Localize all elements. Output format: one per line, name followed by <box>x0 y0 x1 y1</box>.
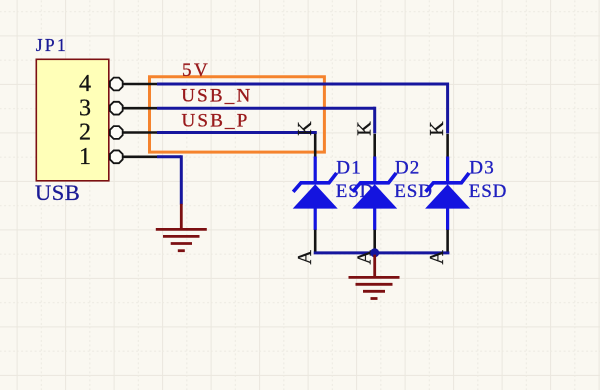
svg-text:K: K <box>294 121 316 136</box>
pin 1 stub <box>121 156 157 159</box>
svg-text:D1: D1 <box>336 158 362 179</box>
right ground bar 2 <box>356 283 393 286</box>
pin 2 stub <box>121 131 157 134</box>
D3 bottom pin (A) <box>446 230 449 252</box>
D3 top lead <box>446 157 449 183</box>
svg-text:ESD: ESD <box>469 181 508 202</box>
ground (right, under diodes) <box>349 255 400 299</box>
D2 top pin (K) <box>373 134 376 158</box>
right ground bar 4 <box>371 297 378 300</box>
svg-text:USB_P: USB_P <box>182 110 250 131</box>
D1 bottom lead <box>314 208 317 230</box>
wire pin1 to ground vertical <box>180 155 183 204</box>
D3 top pin (K) <box>446 134 449 158</box>
pin 3 stub <box>121 107 157 110</box>
D2 triangle <box>352 184 397 208</box>
diode D1 (ESD) <box>293 121 338 265</box>
D2 bottom lead <box>373 208 376 230</box>
left ground bar 3 <box>171 242 192 245</box>
left ground bar 2 <box>163 235 200 238</box>
D1 bottom pin (A) <box>314 230 317 252</box>
left ground bar 1 <box>156 228 207 231</box>
pin 2 circle <box>110 126 123 139</box>
D3 triangle <box>425 184 470 208</box>
svg-text:1: 1 <box>79 144 91 170</box>
D1 cathode bar <box>293 173 336 192</box>
pin 3 circle <box>110 102 123 115</box>
svg-text:K: K <box>353 121 375 136</box>
diode D2 (ESD) <box>352 121 397 265</box>
junction dot <box>370 248 379 257</box>
wire 5V vertical to D3 <box>446 83 449 134</box>
left ground lead <box>180 204 183 230</box>
svg-text:D2: D2 <box>395 158 421 179</box>
svg-text:D3: D3 <box>469 158 495 179</box>
wire USB_N vertical to D2 <box>373 107 376 134</box>
D3 cathode bar <box>426 173 469 192</box>
right ground bar 3 <box>363 290 385 293</box>
D1 top pin (K) <box>314 134 317 158</box>
svg-text:2: 2 <box>79 120 91 146</box>
left ground bar 4 <box>178 249 185 252</box>
svg-text:3: 3 <box>79 95 91 121</box>
D2 top lead <box>373 157 376 183</box>
right ground bar 1 <box>349 276 400 279</box>
svg-text:4: 4 <box>79 71 91 97</box>
right ground lead <box>373 255 376 278</box>
D1 top lead <box>314 157 317 183</box>
svg-text:JP1: JP1 <box>36 35 68 55</box>
wire USB_P horizontal to D1 <box>157 131 317 134</box>
D3 bottom lead <box>446 208 449 230</box>
highlight box (orange selection rectangle) <box>150 77 325 152</box>
diode D3 (ESD) <box>425 121 470 265</box>
svg-text:A: A <box>294 250 316 265</box>
ground (left, from JP1 pin 1) <box>156 204 207 251</box>
pin 4 circle <box>110 78 123 91</box>
D1 triangle <box>293 184 338 208</box>
wire USB_N horizontal <box>157 107 375 110</box>
wire bottom bus <box>314 251 450 254</box>
svg-text:A: A <box>426 250 448 265</box>
svg-text:5V: 5V <box>182 60 210 81</box>
wire pin1 to ground horizontal <box>157 155 181 158</box>
pin 1 circle <box>110 150 123 163</box>
svg-text:K: K <box>426 121 448 136</box>
connector JP1 body <box>36 59 109 181</box>
D2 cathode bar <box>353 173 396 192</box>
wire 5V horizontal <box>157 83 448 86</box>
pin 4 stub <box>121 83 157 86</box>
svg-text:USB_N: USB_N <box>181 85 252 106</box>
svg-text:USB: USB <box>35 180 80 205</box>
D2 bottom pin (A) <box>373 230 376 252</box>
